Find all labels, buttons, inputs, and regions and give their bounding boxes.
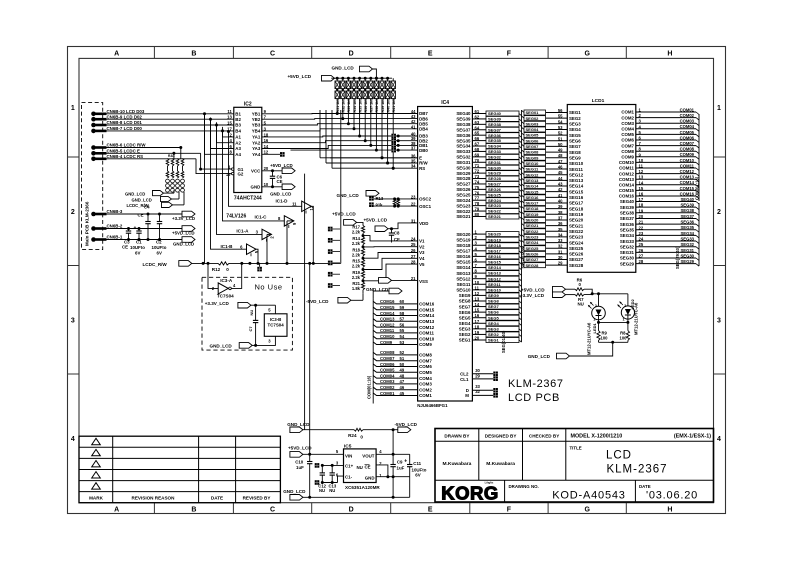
title block names row [435,479,714,481]
svg-text:Main PCB KLM-2366: Main PCB KLM-2366 [85,201,90,246]
svg-text:G2: G2 [238,172,244,177]
svg-text:SEG12: SEG12 [488,276,502,281]
svg-text:DATE: DATE [639,484,651,489]
svg-text:NU: NU [578,302,584,307]
capacitor C10 1uF [309,454,311,461]
svg-text:GND: GND [365,476,375,481]
svg-text:LED1: LED1 [592,323,597,334]
svg-text:SEG6: SEG6 [459,310,471,315]
svg-text:R38 1k0: R38 1k0 [375,99,379,113]
svg-text:SEG20: SEG20 [456,232,471,237]
svg-text:SEG33: SEG33 [488,149,502,154]
wire array fan-down columns [336,99,338,114]
svg-text:SEG15: SEG15 [456,260,471,265]
svg-text:SEG32: SEG32 [488,154,502,159]
svg-text:+5VD_LCD: +5VD_LCD [270,163,293,168]
svg-text:YA4: YA4 [252,152,261,157]
svg-text:CN6B-8 LCD D01: CN6B-8 LCD D01 [107,120,143,125]
svg-text:SEG10: SEG10 [456,288,471,293]
svg-text:G: G [584,51,590,58]
svg-text:COM2: COM2 [419,387,432,392]
wire E RW RS rows [320,157,418,159]
svg-text:SEG25: SEG25 [488,192,502,197]
wire LCDC_R/W row [192,262,218,264]
svg-text:R32 1k0: R32 1k0 [342,99,346,113]
svg-text:DATE: DATE [211,496,223,501]
svg-text:SEG19: SEG19 [569,212,584,217]
svg-text:SEG16: SEG16 [456,254,471,259]
svg-text:+5VD_LCD: +5VD_LCD [172,230,195,235]
svg-text:COM01: COM01 [680,107,695,112]
svg-text:100: 100 [601,336,609,341]
wire R24 row [303,429,354,431]
svg-text:NJU6466BFG1: NJU6466BFG1 [417,403,448,408]
svg-text:SEG18: SEG18 [526,206,540,211]
wire +5V to resistor chain [357,222,363,225]
wire LED cathodes [598,320,600,331]
svg-text:COM08: COM08 [680,147,695,152]
svg-text:MT12-21UYC-A6: MT12-21UYC-A6 [634,302,639,335]
svg-text:2.2k: 2.2k [352,252,361,257]
svg-text:0: 0 [226,267,229,272]
svg-text:SEG26: SEG26 [569,252,584,257]
svg-text:SEG3: SEG3 [459,327,471,332]
dashed box Main PCB KLM-2366 [82,103,103,250]
svg-text:H: H [667,507,672,514]
svg-text:SEG25: SEG25 [526,246,540,251]
svg-text:SEG37: SEG37 [456,127,471,132]
svg-text:RS: RS [419,166,425,171]
wire VDD [388,223,418,229]
svg-text:R24: R24 [348,433,357,438]
svg-text:LCDC_R/W: LCDC_R/W [127,203,149,208]
svg-text:B1: B1 [235,112,241,117]
svg-text:COM16: COM16 [419,302,435,307]
resistor R7 NU [575,293,584,296]
svg-text:CHECKED BY: CHECKED BY [529,434,559,439]
svg-text:100: 100 [620,336,628,341]
border inner frame [79,58,714,502]
svg-text:SEG13: SEG13 [569,178,584,183]
svg-text:COM7: COM7 [419,358,432,363]
svg-text:SEG37: SEG37 [488,127,502,132]
svg-text:SEG32: SEG32 [456,155,471,160]
svg-text:SEG9: SEG9 [488,293,499,298]
svg-text:SEG38: SEG38 [488,122,502,127]
svg-text:SEG34: SEG34 [680,231,694,236]
row tick marks left/right [68,156,80,158]
wire VOUT row [376,453,410,455]
svg-text:SEG13: SEG13 [456,271,471,276]
svg-text:SEG33: SEG33 [456,149,471,154]
svg-text:+5VD_LCD: +5VD_LCD [288,74,312,79]
svg-text:GND_LCD: GND_LCD [332,65,355,70]
svg-text:SEG34: SEG34 [620,233,635,238]
svg-text:KORG: KORG [441,483,499,504]
svg-text:GND_LCD: GND_LCD [337,193,360,198]
LED LED1 [598,294,600,306]
svg-text:6V: 6V [157,251,162,256]
svg-text:SEG16: SEG16 [488,254,502,259]
svg-text:R12: R12 [212,267,221,272]
svg-text:COM01: COM01 [380,391,395,396]
svg-text:+3.3V_LCD: +3.3V_LCD [172,216,195,221]
svg-text:COM12: COM12 [680,169,695,174]
svg-text:SEG01: SEG01 [526,110,540,115]
connector CN6B pins 10-7 [91,112,96,117]
wire VCC to +5VD_LCD [262,170,282,172]
svg-text:SEG18: SEG18 [569,206,584,211]
wire CE pin row [376,465,388,477]
svg-text:+: + [134,226,137,232]
svg-text:M.Kuwabara: M.Kuwabara [442,461,471,467]
svg-text:SEG40: SEG40 [620,199,635,204]
svg-text:SEG14: SEG14 [488,265,502,270]
svg-text:54: 54 [400,334,405,339]
svg-text:2: 2 [595,304,597,308]
svg-text:GND_LCD: GND_LCD [132,197,152,202]
wire COM right bus [698,114,700,201]
svg-text:NU: NU [329,488,335,493]
resistor array RA row1 [335,81,339,89]
svg-text:COM15: COM15 [619,188,635,193]
wire GND to GND_LCD [262,186,282,188]
svg-text:COM7: COM7 [621,143,634,148]
svg-text:YA2: YA2 [252,140,261,145]
svg-text:53: 53 [400,340,405,345]
svg-text:45: 45 [400,391,405,396]
svg-text:SEG34: SEG34 [456,144,471,149]
svg-text:SEG12: SEG12 [526,172,540,177]
resistor R13 91k oscillator network [369,196,374,201]
svg-text:SEG19: SEG19 [526,212,540,217]
op IC5 XC6351A120MR box [344,449,377,483]
svg-text:SEG18: SEG18 [456,243,471,248]
svg-text:COM4: COM4 [621,127,634,132]
flag +3.3V_LCD [182,211,195,217]
connector CN6B pins 3-1 [91,212,96,217]
svg-text:COM(01:16): COM(01:16) [695,176,700,200]
title block header row [435,440,714,442]
svg-text:SEG26: SEG26 [488,187,502,192]
svg-text:SEG27: SEG27 [488,182,502,187]
LED2 emission arrows [620,302,623,305]
svg-text:COM10: COM10 [380,334,395,339]
svg-text:COM15: COM15 [380,305,395,310]
svg-text:SEG27: SEG27 [526,257,540,262]
svg-text:CN6B-7 LCD D00: CN6B-7 LCD D00 [107,126,143,131]
resistor R24 0 [354,428,363,431]
svg-text:RA1: RA1 [168,154,175,158]
svg-text:COM02: COM02 [380,385,395,390]
revision table header row [79,491,280,493]
svg-text:SEG12: SEG12 [456,276,471,281]
junction dots on +5V rail [336,77,339,80]
svg-text:SEG20: SEG20 [526,218,540,223]
svg-text:GND_LCD: GND_LCD [210,343,233,348]
svg-text:COM14: COM14 [419,313,435,318]
svg-text:1: 1 [623,317,625,321]
svg-text:74AHCT244: 74AHCT244 [234,195,262,201]
svg-text:4: 4 [71,436,75,443]
svg-text:SEG36: SEG36 [620,222,635,227]
svg-text:SEG22: SEG22 [488,209,502,214]
svg-text:SEG20: SEG20 [488,232,502,237]
svg-text:COM12: COM12 [419,325,435,330]
svg-text:V3: V3 [419,250,425,255]
svg-text:SEG29: SEG29 [488,171,502,176]
wire R7 to junction [584,293,592,296]
svg-text:COM16: COM16 [380,299,395,304]
svg-text:COM11: COM11 [619,166,634,171]
svg-text:V4: V4 [419,256,425,261]
svg-text:SEG4: SEG4 [488,321,499,326]
svg-text:SEG36: SEG36 [456,133,471,138]
svg-text:SEG7: SEG7 [569,144,581,149]
wire CN6B-1 to GND_LCD [106,239,182,241]
svg-text:SEG35: SEG35 [488,138,502,143]
svg-text:SEG38: SEG38 [620,211,635,216]
svg-text:COM12: COM12 [380,322,395,327]
svg-text:DRAWING NO.: DRAWING NO. [509,484,539,489]
resistor R12 [218,262,229,265]
capacitor C11 polarized 10UF [409,454,411,464]
wire G1 G2 inputs [201,153,232,169]
svg-text:IC2: IC2 [244,101,252,107]
svg-text:VIN: VIN [345,453,352,458]
resistor R9 100 [597,331,600,341]
wire vertical x340 system [340,110,342,263]
revision mark triangles [92,438,101,444]
svg-text:SEG29: SEG29 [680,259,694,264]
svg-text:CN6B-9 LCD D02: CN6B-9 LCD D02 [107,114,143,119]
wire IC3-B output to GND [256,336,276,345]
svg-text:30: 30 [475,368,480,373]
svg-text:SEG11: SEG11 [488,282,501,287]
svg-text:SEG25: SEG25 [456,193,471,198]
wire VIN row [303,453,344,455]
svg-text:YA1: YA1 [252,135,261,140]
svg-text:SEG21: SEG21 [488,214,502,219]
wire SEG bus vertical [521,110,523,342]
svg-text:60: 60 [400,299,405,304]
svg-text:CN6B-6 LCDC R/W: CN6B-6 LCDC R/W [107,143,147,148]
svg-text:(EMX-1/ESX-1): (EMX-1/ESX-1) [674,434,711,440]
svg-text:10UFto: 10UFto [152,245,167,250]
svg-text:VCC: VCC [251,169,261,174]
svg-text:TC7S04: TC7S04 [268,323,285,328]
svg-text:SEG08: SEG08 [526,150,540,155]
svg-text:VSS: VSS [419,279,428,284]
revision table column lines [112,436,114,503]
svg-text:COM04: COM04 [380,373,395,378]
svg-text:COM3: COM3 [419,382,432,387]
LED1 emission arrows [591,303,594,306]
svg-text:+: + [404,458,407,464]
svg-text:SEG32: SEG32 [680,242,694,247]
svg-text:SEG11: SEG11 [569,167,583,172]
svg-text:COM13: COM13 [380,317,395,322]
svg-text:SEG07: SEG07 [526,144,540,149]
svg-text:KLM-2367: KLM-2367 [508,378,564,390]
svg-text:SEG33: SEG33 [680,236,694,241]
svg-text:SEG39: SEG39 [456,117,471,122]
svg-text:SEG6: SEG6 [488,310,499,315]
svg-text:SEG5: SEG5 [459,315,471,320]
svg-text:SEG9: SEG9 [459,293,471,298]
svg-text:SEG30: SEG30 [620,256,635,261]
resistor chain R17 R14 R18 R15 R19 R21 [361,226,364,234]
svg-text:COM02: COM02 [680,113,695,118]
svg-text:B2: B2 [235,117,241,122]
svg-text:LCD PCB: LCD PCB [508,392,560,404]
svg-text:IC3-A: IC3-A [220,278,233,283]
svg-text:SEG1: SEG1 [569,110,581,115]
wire CN6B-2 to +5VD_LCD [106,228,182,230]
svg-text:SEG9: SEG9 [569,155,581,160]
svg-text:10UFto: 10UFto [130,245,145,250]
svg-text:1: 1 [593,317,595,321]
svg-text:-5VD_LCD: -5VD_LCD [306,299,329,304]
svg-text:SEG2: SEG2 [488,332,499,337]
svg-text:SEG34: SEG34 [488,144,502,149]
svg-text:SEG11: SEG11 [526,167,539,172]
svg-text:C7: C7 [248,326,253,332]
svg-text:SEG1: SEG1 [459,338,471,343]
svg-text:GND_LCD: GND_LCD [125,192,145,197]
svg-text:SEG39: SEG39 [620,205,635,210]
flag +5VD_LCD [182,226,195,232]
svg-text:CN6B-10 LCD D03: CN6B-10 LCD D03 [107,109,145,114]
wire data bus rows left of IC2 [106,113,234,115]
svg-text:F: F [507,507,512,514]
svg-text:COM11: COM11 [680,163,695,168]
svg-text:COM6: COM6 [419,364,432,369]
svg-text:COM3: COM3 [621,121,634,126]
svg-text:SEG21: SEG21 [526,223,540,228]
svg-text:C1-: C1- [345,474,353,479]
svg-text:SEG14: SEG14 [456,265,471,270]
svg-text:OSC2: OSC2 [419,197,432,202]
svg-text:COM8: COM8 [621,149,634,154]
svg-text:+5VD_LCD: +5VD_LCD [332,211,356,216]
svg-text:1uF: 1uF [397,465,405,470]
svg-text:REVISED BY: REVISED BY [243,496,271,501]
svg-text:SEG3: SEG3 [569,122,581,127]
svg-text:SEG(29:40): SEG(29:40) [675,246,680,269]
svg-text:YB2: YB2 [252,117,261,122]
svg-text:SEG10: SEG10 [569,161,584,166]
svg-text:SEG15: SEG15 [488,260,502,265]
svg-text:SEG28: SEG28 [569,263,584,268]
svg-text:IC3-B: IC3-B [270,317,281,322]
svg-text:REVISION REASON: REVISION REASON [132,496,176,501]
svg-text:6V: 6V [415,473,420,478]
svg-text:SEG36: SEG36 [680,220,694,225]
svg-text:VOUT: VOUT [362,453,375,458]
svg-text:COM03: COM03 [380,379,395,384]
svg-text:55: 55 [400,328,405,333]
svg-text:+5VD_LCD: +5VD_LCD [364,218,388,223]
svg-text:59: 59 [400,305,405,310]
svg-text:OSC1: OSC1 [419,204,432,209]
svg-text:SEG28: SEG28 [456,176,471,181]
svg-text:COM08: COM08 [380,350,395,355]
svg-text:GND: GND [251,185,261,190]
pad YA4 net stub [262,153,280,155]
svg-text:MT12-21UYC-A6: MT12-21UYC-A6 [587,322,592,355]
svg-text:E: E [428,51,433,58]
svg-text:+3.3V_LCD: +3.3V_LCD [520,293,545,298]
wire R/W drop to array [180,148,182,159]
svg-text:SEG6: SEG6 [569,138,581,143]
svg-text:SEG19: SEG19 [488,237,502,242]
svg-text:SEG19: SEG19 [456,237,471,242]
capacitor C1 polarized [138,229,140,232]
svg-text:IC5: IC5 [344,443,352,449]
svg-text:C9: C9 [397,459,403,464]
svg-text:-5VD_LCD: -5VD_LCD [395,422,418,427]
svg-text:COM(01:16): COM(01:16) [367,375,372,399]
svg-text:COM03: COM03 [680,119,695,124]
svg-text:B: B [191,507,196,514]
svg-text:SEG23: SEG23 [526,235,540,240]
op IC2 74AHCT244 box [234,107,262,192]
svg-text:GND_LCD: GND_LCD [173,241,194,246]
svg-text:SEG7: SEG7 [488,304,499,309]
svg-text:47: 47 [400,379,405,384]
svg-text:GND_LCD: GND_LCD [270,192,291,197]
svg-text:SEG10: SEG10 [526,161,540,166]
svg-text:IC1-C: IC1-C [255,215,268,220]
svg-text:1: 1 [717,105,721,112]
svg-text:COM16: COM16 [680,191,695,196]
svg-text:R33 1k0: R33 1k0 [347,99,351,113]
svg-text:SEG1: SEG1 [488,338,499,343]
svg-text:NU: NU [357,465,363,470]
svg-text:C8: C8 [394,231,400,236]
svg-text:V1: V1 [419,239,425,244]
svg-text:B4: B4 [235,129,241,134]
svg-text:SEG15: SEG15 [569,189,584,194]
wire COM bus vertical [372,298,374,403]
svg-text:SEG22: SEG22 [456,209,471,214]
svg-text:NU: NU [319,488,325,493]
svg-text:SEG37: SEG37 [680,214,694,219]
svg-text:SEG21: SEG21 [569,223,584,228]
svg-text:SEG8: SEG8 [459,299,471,304]
svg-text:CE: CE [277,179,283,184]
svg-text:DRAWN BY: DRAWN BY [444,434,469,439]
svg-text:C11: C11 [413,461,421,466]
svg-text:COM15: COM15 [419,307,435,312]
svg-text:SEG21: SEG21 [456,214,471,219]
svg-text:DB0: DB0 [419,148,428,153]
svg-text:3: 3 [71,317,75,324]
wire SEG right bus [698,203,700,266]
svg-text:COM12: COM12 [619,171,635,176]
op IC4 NJU6466BFG1 box [418,107,473,402]
svg-text:COM05: COM05 [380,368,395,373]
svg-text:COM5: COM5 [419,370,432,375]
svg-text:SEG31: SEG31 [620,250,635,255]
svg-text:SEG2: SEG2 [459,332,471,337]
svg-text:CN6B-3: CN6B-3 [107,209,123,214]
svg-text:SEG31: SEG31 [488,160,502,165]
svg-text:SEG23: SEG23 [488,203,502,208]
svg-text:SEG30: SEG30 [488,165,502,170]
svg-text:COM14: COM14 [619,183,635,188]
